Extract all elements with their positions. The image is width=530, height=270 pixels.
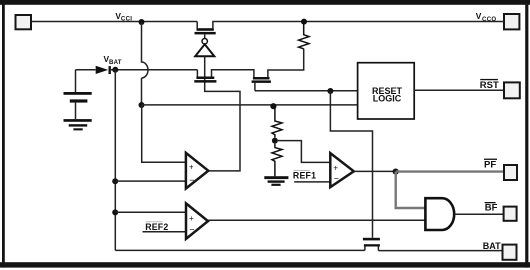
svg-text:−: − (189, 175, 194, 185)
wire CMP1 plus input (142, 105, 186, 162)
wire PF output (396, 170, 504, 172)
node VBAT junction (112, 67, 118, 73)
svg-text:RST: RST (480, 80, 499, 91)
wire M3 drain to resistor R1 (268, 49, 304, 77)
svg-text:PF: PF (484, 159, 496, 170)
node CMP1 minus junction (112, 178, 118, 184)
svg-text:LOGIC: LOGIC (373, 94, 402, 104)
node sense junction (139, 102, 145, 108)
label VCCO (476, 11, 497, 23)
wire BAT output (378, 250, 502, 252)
wire net A: inverter input / M2 gate / comparator CMP1 output (205, 56, 240, 171)
reset logic block U2 (358, 63, 415, 119)
wire CMP2 output to AND gate (208, 219, 425, 221)
wire M3 gate to net B (254, 83, 256, 91)
wire VCCI rail (31, 22, 197, 29)
wire PF to AND gate input (396, 172, 425, 208)
pad RST (504, 82, 520, 98)
node divider tap (272, 138, 278, 144)
label VCCI (115, 11, 132, 23)
op-amp CMP3 (330, 153, 354, 187)
pad VCCO (504, 14, 519, 29)
transistor M3 (252, 77, 271, 83)
wire VCCI sense bus to reset logic (142, 104, 358, 106)
op-amp CMP1 (186, 153, 208, 189)
wire divider tap to CMP3 plus (278, 141, 330, 163)
wire VCCO rail (213, 22, 504, 29)
resistor R1 (299, 22, 309, 49)
transistor M2 (battery switch) (194, 77, 216, 83)
label PF (484, 159, 497, 160)
wire VCCI sense drop with hop (142, 22, 149, 105)
label RST (480, 79, 498, 80)
label REF2 (146, 220, 163, 223)
pad VCCI (16, 15, 32, 29)
node VCCO resistor junction (301, 19, 307, 25)
label BF (485, 202, 496, 203)
wire BF output (454, 213, 503, 215)
svg-text:−: − (189, 224, 194, 234)
svg-text:REF1: REF1 (293, 171, 316, 181)
wire CMP2 plus input (115, 211, 185, 213)
svg-text:BAT: BAT (109, 59, 122, 66)
transistor M4 (battery line switch) (363, 238, 380, 247)
divider resistor R3 (272, 144, 282, 177)
wire RST output (414, 89, 504, 91)
wire net B to M4 gate (330, 91, 372, 238)
label REF1 (294, 169, 310, 172)
node divider top junction (270, 103, 276, 109)
AND gate U3 (425, 198, 454, 230)
wire REF2 stub (CMP2 minus) (143, 231, 186, 233)
node PF junction (393, 169, 399, 175)
diode D1 (96, 66, 111, 74)
wire CMP1 minus input (115, 180, 185, 182)
svg-text:BAT: BAT (483, 241, 501, 251)
battery B1 (75, 70, 77, 92)
wire REF1 stub (CMP3 minus) (294, 181, 330, 183)
svg-text:−: − (334, 174, 339, 184)
svg-text:+: + (189, 214, 194, 223)
ground (divider) (264, 176, 288, 186)
node VCCI junction (139, 19, 145, 25)
pad BF (504, 207, 517, 221)
wire net B: M3 gate / reset logic input (255, 90, 358, 92)
label VBAT (104, 54, 122, 66)
inverter U1 (202, 39, 207, 44)
wire VBAT vertical bus (114, 70, 116, 251)
pad BAT (503, 245, 517, 260)
op-amp CMP2 (186, 203, 208, 239)
svg-text:V: V (476, 11, 482, 21)
transistor M1 (VCC series switch) (195, 28, 216, 34)
pad PF (504, 165, 517, 180)
svg-text:REF2: REF2 (145, 222, 168, 232)
wire VBAT (76, 70, 198, 77)
wire CMP3 output (354, 170, 396, 172)
ground (battery) (64, 119, 92, 130)
divider resistor R2 (272, 106, 282, 138)
svg-text:+: + (333, 163, 338, 172)
node CMP2 plus junction (112, 209, 118, 215)
wire battery bottom bus (115, 246, 365, 250)
node net B junction (327, 88, 333, 94)
svg-text:+: + (189, 162, 194, 171)
wire M2 drain to M3 source (212, 70, 254, 77)
svg-text:BF: BF (485, 203, 498, 214)
